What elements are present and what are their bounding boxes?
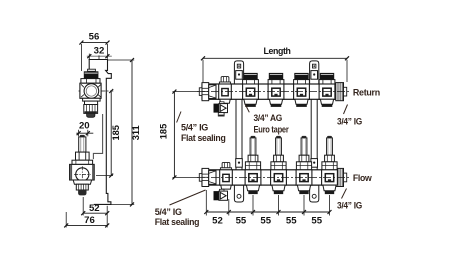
dimension 32 bbox=[87, 45, 112, 59]
dimension 76 (side) bbox=[64, 212, 109, 227]
return end body with vent bbox=[219, 77, 232, 104]
dimension 185 (front) bbox=[158, 90, 199, 180]
svg-text:3/4” IG: 3/4” IG bbox=[337, 200, 362, 210]
return drain valve bbox=[214, 102, 228, 116]
dimension 52 (side) bbox=[81, 197, 109, 227]
svg-text:56: 56 bbox=[89, 32, 100, 43]
svg-text:Flat sealing: Flat sealing bbox=[181, 133, 226, 143]
flow outlet 2 bbox=[271, 136, 287, 194]
svg-text:5/4” IG: 5/4” IG bbox=[181, 122, 208, 132]
svg-text:20: 20 bbox=[79, 120, 90, 131]
svg-text:3/4” AG: 3/4” AG bbox=[254, 113, 283, 123]
flow drain valve bbox=[214, 189, 228, 200]
svg-text:185: 185 bbox=[158, 124, 168, 140]
svg-text:55: 55 bbox=[286, 216, 297, 227]
label 3/4 AG Euro taper + leader bbox=[245, 105, 249, 113]
flow outlet 1 bbox=[245, 136, 261, 194]
svg-text:55: 55 bbox=[311, 216, 322, 227]
label 3/4 IG top + leader bbox=[344, 105, 348, 115]
return outlet 2 bbox=[268, 73, 284, 107]
bottom dimension row 52/55/55/55/55 bbox=[204, 190, 331, 227]
svg-text:Return: Return bbox=[353, 87, 381, 97]
svg-text:52: 52 bbox=[89, 203, 100, 214]
bracket profile left edge (top) bbox=[88, 60, 90, 72]
svg-text:Flow: Flow bbox=[353, 173, 373, 183]
label 3/4 IG bottom + leader bbox=[342, 189, 347, 199]
bracket profile outline bbox=[89, 60, 111, 205]
dimension 56 bbox=[79, 32, 109, 72]
dimension Length bbox=[201, 45, 349, 82]
svg-text:185: 185 bbox=[111, 125, 121, 141]
bracket inner edge mid bbox=[93, 115, 102, 159]
dimension 311 (side) bbox=[108, 58, 142, 206]
flow bar bbox=[199, 168, 346, 186]
bracket rail 1 bbox=[234, 61, 243, 202]
svg-text:76: 76 bbox=[84, 215, 95, 226]
label 5/4 IG Flat sealing (top) + leader bbox=[177, 112, 181, 123]
svg-text:Euro taper: Euro taper bbox=[254, 124, 290, 134]
svg-text:55: 55 bbox=[236, 216, 247, 227]
return valve centerline (side) bbox=[79, 90, 114, 92]
return outlet 4 bbox=[319, 73, 335, 107]
svg-text:5/4” IG: 5/4” IG bbox=[155, 207, 182, 217]
flow outlet 4 bbox=[322, 136, 338, 194]
flow valve (side view) bbox=[70, 135, 95, 196]
bracket rail 2 bbox=[310, 61, 319, 202]
svg-text:52: 52 bbox=[212, 216, 223, 227]
return bar bbox=[199, 83, 346, 101]
svg-text:55: 55 bbox=[260, 216, 271, 227]
svg-text:Length: Length bbox=[264, 45, 292, 56]
svg-text:3/4” IG: 3/4” IG bbox=[337, 116, 362, 126]
svg-text:32: 32 bbox=[94, 45, 105, 56]
svg-text:311: 311 bbox=[131, 125, 141, 140]
return bar centerline bbox=[197, 91, 351, 93]
label 5/4 IG Flat sealing (bottom) + leader bbox=[170, 190, 206, 205]
dimension 20 bbox=[76, 120, 93, 136]
return valve vertical centerline bbox=[90, 82, 92, 100]
flow end body with vent bbox=[220, 162, 233, 189]
svg-text:Flat sealing: Flat sealing bbox=[155, 217, 200, 227]
return outlet 3 bbox=[294, 73, 310, 107]
right end nut bbox=[336, 83, 344, 101]
return outlet 1 bbox=[243, 73, 259, 107]
flow bar centerline bbox=[197, 176, 351, 178]
dimension 185 (side) bbox=[96, 89, 121, 178]
flow outlet 3 bbox=[296, 136, 312, 194]
return valve (side view) bbox=[80, 69, 101, 117]
